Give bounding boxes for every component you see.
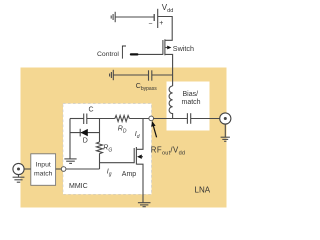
MMIC top wire with cap C	[70, 118, 84, 120]
output node circle	[149, 116, 154, 121]
bypass ground (sideways)	[110, 70, 114, 80]
switch Q1 source wire down to coil	[165, 54, 173, 86]
ground (top left, sideways)	[111, 12, 115, 22]
svg-text:MMIC: MMIC	[69, 183, 88, 190]
control wire	[138, 53, 163, 55]
input port ground	[18, 174, 20, 177]
LNA orange region	[21, 68, 227, 208]
control step symbol	[122, 46, 126, 59]
amp ground	[138, 203, 151, 207]
gate wire branch	[100, 162, 135, 164]
capacitor Cbypass plates	[148, 70, 150, 80]
amp Q2 channel bar	[135, 147, 137, 165]
diode D triangle	[81, 129, 88, 136]
RG lower vertical to input wire	[99, 155, 101, 169]
svg-text:D: D	[83, 138, 88, 145]
MMIC internal ground	[64, 159, 76, 164]
input node circle	[61, 167, 66, 172]
battery V1 long plate	[157, 9, 159, 28]
svg-text:−: −	[148, 21, 152, 28]
output port dot	[224, 117, 227, 120]
output port circle	[220, 113, 231, 124]
switch body stub	[165, 47, 167, 49]
switch body arrow	[167, 46, 171, 50]
wire ground to Cbypass	[113, 74, 148, 76]
svg-text:Switch: Switch	[173, 44, 194, 53]
svg-text:LNA: LNA	[195, 186, 211, 195]
svg-text:Control: Control	[97, 51, 119, 58]
resistor RG zigzag	[97, 142, 103, 155]
input wire from node to RG junction	[66, 168, 100, 170]
RF output line from node to port	[153, 118, 187, 120]
control thick bar	[130, 53, 139, 55]
middle vertical wire top	[99, 119, 101, 143]
Input match box	[31, 154, 56, 186]
wire RD to node	[129, 118, 148, 120]
input port circle	[13, 163, 24, 174]
svg-text:match: match	[182, 99, 201, 106]
capacitor Cout plates	[186, 113, 188, 124]
RFout arrow line	[153, 126, 156, 137]
wire Cout to output port	[191, 118, 220, 120]
switch Q1 gate bar	[162, 40, 164, 55]
input port dot	[17, 168, 20, 171]
svg-text:+: +	[159, 20, 163, 27]
amp Q2 drain	[136, 119, 143, 150]
Bias/match box	[167, 82, 210, 131]
wire ground to battery	[115, 16, 154, 18]
resistor RD zigzag	[115, 116, 129, 122]
diode D wire	[70, 132, 100, 134]
switch Q1 channel bar	[164, 39, 166, 55]
inductor L1 (bias coil)	[169, 86, 173, 119]
amp Q2 source down to ground	[136, 164, 143, 202]
svg-text:Bias/: Bias/	[183, 91, 199, 98]
svg-text:Amp: Amp	[122, 171, 137, 178]
amp Q2 gate bar	[133, 148, 135, 163]
RFout arrowhead	[151, 121, 155, 127]
wire C to RD	[87, 118, 115, 120]
capacitor C plates	[83, 114, 85, 125]
diode D cathode bar	[79, 129, 81, 137]
amp body stub	[142, 156, 143, 158]
wire Cbypass to switch source node	[152, 74, 173, 76]
battery V1 short plate	[153, 14, 155, 21]
output port ground	[224, 124, 226, 137]
svg-text:Input: Input	[36, 162, 51, 169]
svg-text:C: C	[89, 107, 94, 114]
MMIC box	[63, 104, 152, 195]
svg-text:match: match	[34, 171, 53, 178]
wire box to input node	[56, 168, 62, 170]
amp body arrow	[137, 155, 142, 159]
MMIC left wire down to ground	[69, 119, 71, 159]
wire battery+ to switch drain	[158, 17, 173, 41]
input port wire to box	[24, 168, 31, 170]
